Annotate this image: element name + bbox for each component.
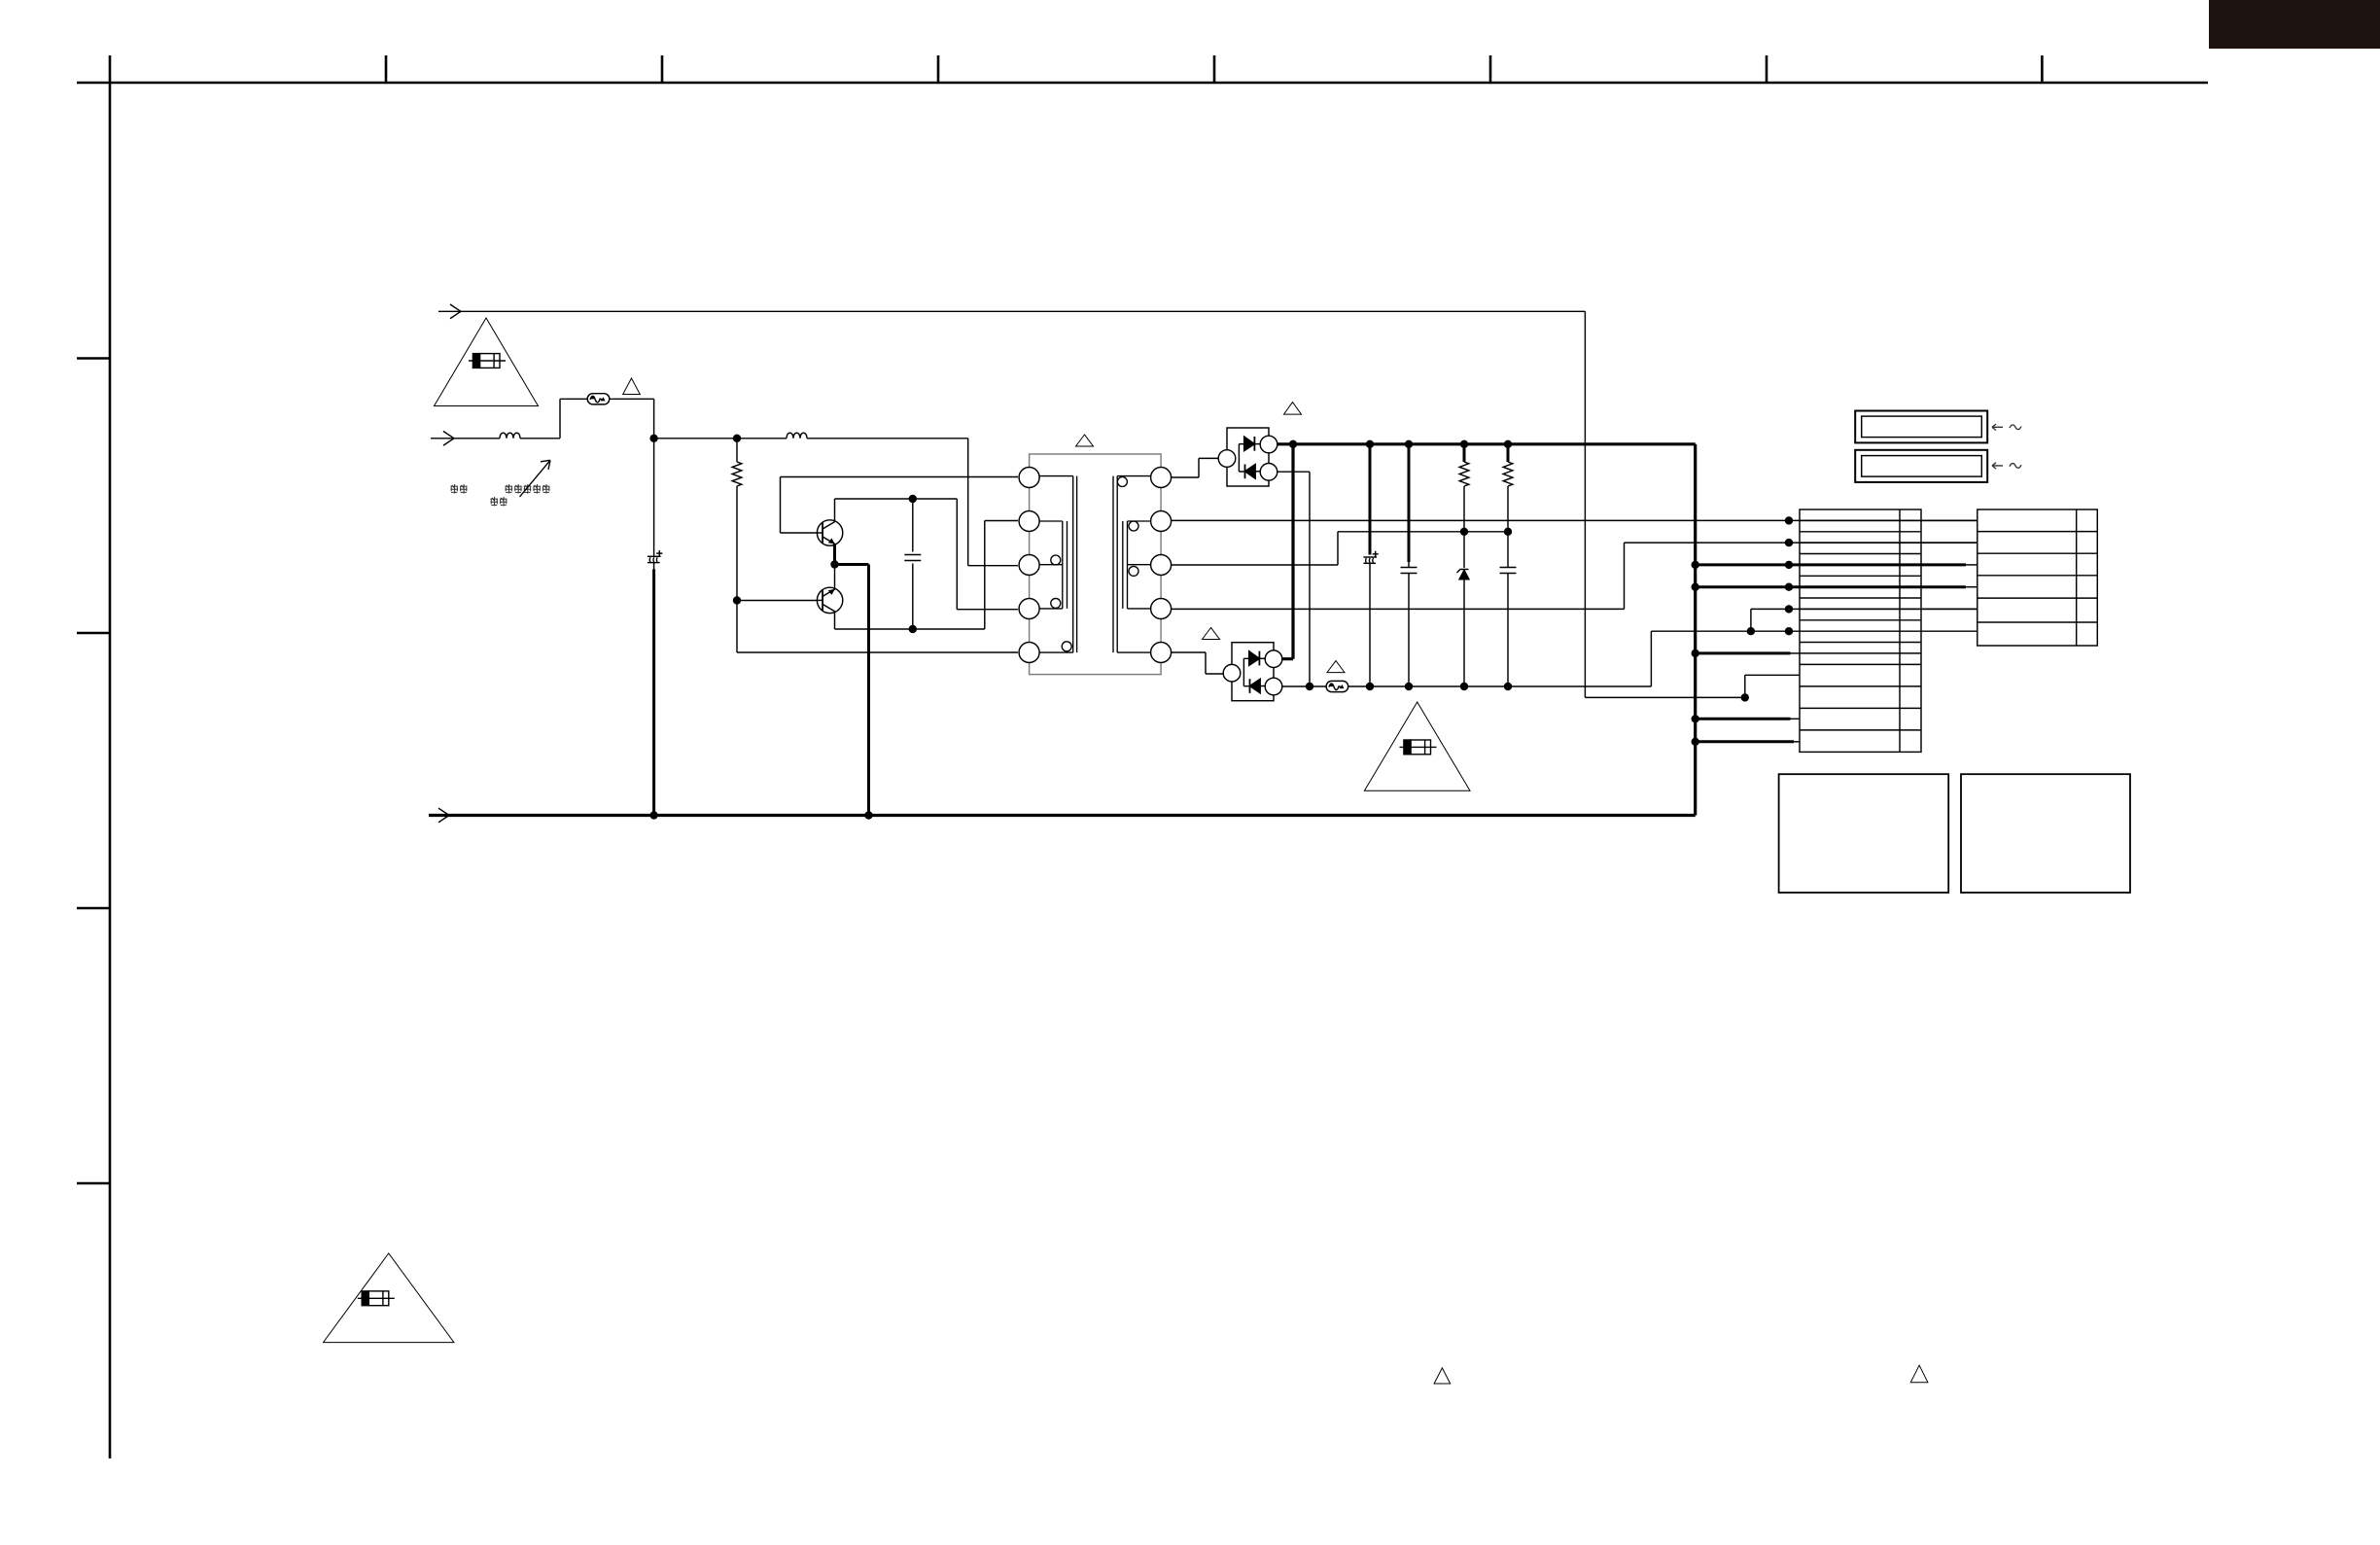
inductor L2 line filter [787, 433, 807, 439]
wire capacitor branch [912, 499, 914, 629]
thick stub to R zener chain [1463, 444, 1466, 462]
thick wire top bridge to bottom bridge [1282, 444, 1293, 659]
thick wire rail to connector row 762.8 [1696, 740, 1794, 743]
warning triangle near F1 [623, 378, 641, 395]
wire pin R2 to connector row (long) [1172, 519, 1977, 521]
transformer pins left column [1019, 468, 1039, 488]
wire pin R5 to bottom bridge [1172, 652, 1224, 674]
thick wire bottom return rail [429, 814, 1696, 817]
capacitor C osc [904, 555, 921, 561]
wire resistor to base node and transformer pin L5 [737, 486, 1018, 652]
transistor Q1 [817, 520, 842, 545]
resistor R z [1459, 462, 1469, 486]
warning triangle bottom left fuse warning [324, 1253, 454, 1343]
wire pin R1 to top bridge [1172, 458, 1219, 477]
wire top bridge lower pin down to return line [1277, 472, 1310, 686]
capacitor C snub 2 [1401, 568, 1417, 574]
transformer secondary winding bar (inner right) [1123, 521, 1151, 609]
warning triangle bottom small 2 [1910, 1365, 1928, 1383]
label arrow/tilde glyphs [1992, 424, 2003, 430]
wire pin R3 jog to snubber row [1172, 532, 1508, 565]
thick wire +B rail from top bridge [1277, 444, 1696, 816]
resistor R start [732, 462, 742, 486]
wire emitter junction to Q2 [834, 565, 836, 589]
annotation arrow to fuse [520, 460, 551, 497]
text label 他の [451, 484, 468, 494]
fuse icon in bottom left triangle [358, 1291, 395, 1306]
input arrow bottom [438, 808, 449, 823]
input arrow top [450, 304, 461, 319]
page corner black label block [2209, 0, 2380, 49]
text label の沿面距離 [506, 484, 550, 494]
thick stub to R cap chain [1507, 444, 1510, 462]
warning triangle above F2 [1327, 661, 1345, 673]
thick stub to C electrolytic [1369, 444, 1372, 555]
top ruler tick marks [386, 55, 2042, 83]
thick stub to C film [1408, 444, 1411, 562]
note box right [1961, 774, 2130, 893]
transformer secondary winding bar (outer right) [1113, 476, 1151, 652]
zener diode ZD [1459, 570, 1470, 579]
fuse F1 [587, 394, 610, 404]
wire Q2 collector loop to pin L2 [835, 521, 1019, 630]
warning triangle T1 fuse warning [435, 318, 539, 406]
resistor R c [1503, 462, 1513, 486]
transformer feedback winding bar (inner left) [1039, 521, 1067, 609]
page border top ruler line [77, 82, 2208, 85]
wire Q1 base feedback from transformer pin L1 [781, 477, 1019, 534]
connector table CN right [1977, 509, 2098, 646]
note box left [1779, 774, 1949, 893]
transformer winding polarity dots [1051, 555, 1061, 565]
fuse F2 [1326, 681, 1348, 691]
warning triangle bottom middle fuse warning [1364, 702, 1470, 790]
warning triangle bottom small 1 [1434, 1368, 1451, 1384]
label box 1 (double rectangle) [1855, 411, 1987, 443]
wire AC top line down to connector [1585, 311, 1800, 697]
warning triangle above transformer [1076, 435, 1094, 446]
wire secondary return line [1282, 631, 1800, 686]
wire pin R4 jog to connector row [1172, 543, 1977, 609]
transformer primary winding bar (outer left) [1039, 476, 1077, 652]
wire AC mid line left segment [431, 399, 1018, 565]
capacitor C line-to-ground left (electrolytic symbol) [647, 550, 662, 563]
input arrow mid [443, 432, 454, 446]
junction dots [649, 435, 1793, 820]
fuse icon in warning triangle top-left [469, 354, 506, 369]
inductor L1 line filter [500, 433, 520, 439]
diode bridge D bottom [1223, 643, 1282, 701]
warning triangle above top bridge [1284, 403, 1302, 415]
transistor Q2 [817, 587, 842, 613]
wire Q1 collector loop to pin L4 [835, 499, 1019, 610]
transformer T core frame [1030, 454, 1162, 675]
fuse icon in bottom middle triangle [1400, 740, 1437, 755]
wire mid junction down to resistor [736, 439, 738, 462]
warning triangle above bottom bridge [1203, 628, 1220, 640]
page border left ruler line [109, 55, 112, 1458]
thick wire rail to connector row 580.9 [1696, 563, 1966, 566]
left ruler tick marks [77, 359, 110, 1184]
connector table CN left [1800, 509, 1921, 752]
diode bridge D top [1218, 428, 1277, 486]
wire AC top line [438, 310, 1585, 312]
wire jog into connector row 626 [1751, 609, 1977, 631]
thick wire C down to bottom rail [652, 570, 655, 816]
transformer pins right column [1151, 468, 1172, 488]
label box 2 (double rectangle) [1855, 450, 1987, 482]
wire from AC mid junction down to C-line cap [653, 439, 655, 570]
wires connector-to-connector rows [1921, 520, 1977, 631]
thick wire rail to connector row 671.9 [1696, 651, 1791, 654]
capacitor C snub 3 [1500, 568, 1517, 574]
thick wire Q1 emitter junction down to bottom rail [835, 544, 869, 816]
capacitor C snub 1 (electrolytic symbol) [1363, 551, 1378, 564]
thick wire rail to connector row 603.7 [1696, 585, 1966, 588]
thick wire rail to connector row 739.3 [1696, 718, 1791, 720]
text label 以上 [491, 497, 507, 507]
